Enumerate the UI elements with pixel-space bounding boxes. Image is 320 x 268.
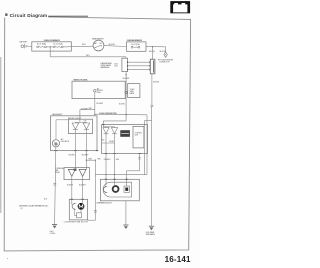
svg-text:YEL/RED: YEL/RED: [68, 155, 75, 157]
svg-text:A/C: A/C: [61, 138, 64, 141]
wire female connector down right column: [151, 74, 160, 226]
svg-text:GRN: GRN: [88, 159, 91, 161]
wire bulb feed inside gauge assembly: [56, 120, 69, 140]
node feed junction 1: [105, 174, 106, 175]
ground G101 right column: [146, 226, 156, 236]
svg-text:COMPRESSOR CLUTCH: COMPRESSOR CLUTCH: [96, 203, 112, 205]
svg-text:Circuit Diagram: Circuit Diagram: [10, 13, 48, 18]
indicator circuit box: [68, 118, 93, 134]
wire control box L-leg to square pin: [127, 154, 141, 187]
svg-text:TO A/C: TO A/C: [130, 88, 136, 91]
scan edge artifact line: [0, 57, 2, 213]
wire labels below gauge assembly: [68, 155, 89, 157]
svg-text:WHT: WHT: [82, 44, 86, 46]
wire fuse No.41 to fuse No.42: [47, 46, 54, 48]
wire diode D2 down: [85, 130, 87, 168]
motor connector pin: [72, 203, 76, 209]
svg-text:CONDENSER FAN MOTOR: CONDENSER FAN MOTOR: [64, 220, 89, 223]
under-hood fuse/relay box: [32, 39, 72, 51]
wire labels below control box: [88, 159, 119, 161]
test tachometer connector: [158, 52, 174, 64]
wire bus right corner down: [146, 115, 148, 175]
svg-text:HARNESS: HARNESS: [101, 66, 110, 69]
wire connector pin 1: [128, 61, 151, 63]
wire heater panel pin down to bus, BLU/WHT: [89, 92, 104, 114]
svg-text:C550: C550: [114, 66, 118, 68]
svg-text:AT ENGINE COOLANT TEMP ABOVE 1: AT ENGINE COOLANT TEMP ABOVE 106 C: [19, 205, 49, 208]
thermostat block: [120, 130, 130, 137]
svg-text:A/C: A/C: [102, 139, 104, 142]
fuse No.42 (40A): [53, 43, 63, 48]
harness label block: [101, 62, 118, 69]
note box pin terminal: [125, 91, 127, 93]
svg-text:TEST TACHOMETER: TEST TACHOMETER: [158, 58, 174, 61]
wire relay to condenser fan motor left: [71, 180, 73, 205]
svg-text:16-141: 16-141: [165, 255, 191, 264]
engine compartment harness bus wire: [80, 108, 147, 122]
wire fuse box to ignition switch, WHT: [63, 44, 93, 47]
svg-text:CONNECTOR: CONNECTOR: [159, 62, 170, 64]
wire inside indicator box: [75, 121, 86, 123]
svg-text:RED: RED: [116, 159, 120, 161]
note annotation: [19, 205, 49, 210]
section title bullet: [5, 13, 7, 16]
svg-text:BLU/WHT: BLU/WHT: [123, 78, 130, 80]
wire motor internal: [75, 209, 82, 216]
A/C indicator bulb: [52, 138, 70, 147]
svg-text:BLK/YEL: BLK/YEL: [109, 44, 116, 46]
wire under-dash box to tachometer stub: [146, 47, 166, 53]
svg-text:CONTROL: CONTROL: [135, 132, 142, 134]
wire connector pin 3: [128, 68, 151, 70]
battery B1: [20, 40, 29, 48]
clutch coil: [113, 186, 119, 192]
diagram border frame: [4, 16, 190, 251]
scan speck: [7, 258, 8, 259]
svg-text:WIRE: WIRE: [130, 91, 134, 93]
svg-text:BLK: BLK: [44, 198, 47, 200]
wire D3 down through control box: [105, 134, 107, 154]
svg-text:No.42 (40A): No.42 (40A): [53, 43, 62, 46]
svg-text:C453: C453: [114, 64, 118, 66]
fuse No.24 (15A): [131, 43, 140, 48]
wire junction down to dash harness connector: [152, 47, 154, 60]
svg-text:FEED: FEED: [97, 92, 102, 94]
diode D1 in indicator box: [72, 122, 79, 129]
svg-text:RED/BLU: RED/BLU: [104, 159, 111, 161]
node junction main feed: [152, 46, 153, 47]
ECM inner box: [133, 126, 144, 147]
fuse No.41 (80A): [37, 43, 47, 48]
gauge assembly box: [51, 113, 99, 150]
heater control panel box: [72, 79, 125, 99]
ground G2 compressor: [123, 225, 128, 229]
wire ignition switch to under-dash fuse box, BLK/YEL: [104, 44, 127, 47]
svg-text:BLU/WHT: BLU/WHT: [96, 103, 103, 105]
wire battery to under-hood fuse box: [26, 45, 32, 48]
dash wire harness connector male half: [122, 58, 128, 71]
ignition switch: [92, 38, 104, 50]
svg-text:BLK/YEL: BLK/YEL: [149, 51, 155, 53]
wire relay to motor labels: [67, 185, 86, 187]
svg-text:No.41 (80A): No.41 (80A): [37, 43, 46, 46]
page header battery chapter icon: [170, 1, 190, 13]
diode D4 in control box: [111, 127, 117, 134]
wire D3 leg down to compressor pin: [105, 154, 107, 186]
svg-text:SWITCH: SWITCH: [97, 90, 103, 92]
section title text: [10, 13, 48, 18]
node bus junction left: [94, 114, 95, 115]
svg-text:UNDER-DASH FUSE/RELAY BOX: UNDER-DASH FUSE/RELAY BOX: [127, 39, 143, 42]
svg-text:BLU/WHT: BLU/WHT: [81, 108, 88, 110]
wire compressor to ground: [125, 201, 127, 225]
diode D3 in control box: [103, 127, 109, 134]
clutch square terminal: [124, 186, 130, 192]
wire into control box split: [103, 126, 114, 128]
wire connector pin 2: [128, 65, 151, 67]
svg-text:DELAY: DELAY: [109, 140, 114, 143]
svg-text:G401: G401: [50, 231, 54, 233]
wire control box internal: [102, 139, 115, 143]
svg-text:BLU/RED: BLU/RED: [82, 155, 89, 157]
node jumper junction: [86, 160, 96, 161]
wire male connector down to heater control panel, BLU/WHT: [119, 72, 130, 115]
condenser fan motor M: [78, 203, 85, 210]
svg-text:BATTERY: BATTERY: [20, 40, 29, 43]
heater panel pin terminal: [94, 87, 103, 94]
motor thermal fuse: [77, 213, 82, 218]
svg-text:WHT: WHT: [86, 55, 90, 57]
svg-text:RED: RED: [98, 159, 102, 161]
wire jumper to right column: [86, 160, 96, 220]
page number: [165, 255, 191, 264]
svg-text:BLU/BLK: BLU/BLK: [67, 185, 73, 187]
svg-text:No.24 (15A): No.24 (15A): [131, 43, 140, 46]
wire D4 down through control box: [114, 134, 116, 154]
svg-text:UNIT: UNIT: [135, 134, 139, 136]
condenser fan motor box: [64, 199, 89, 223]
compressor clutch box: [96, 179, 139, 204]
svg-text:( 1 ): ( 1 ): [20, 208, 23, 210]
svg-text:BLK/YEL: BLK/YEL: [153, 82, 159, 84]
diode D2 in indicator box: [83, 122, 90, 129]
node bus junction right: [125, 114, 127, 116]
wire bulb ground line, BLK: [44, 147, 56, 225]
svg-text:G101 (MAIN: G101 (MAIN: [146, 231, 154, 234]
svg-text:BLK/YEL: BLK/YEL: [119, 103, 125, 105]
wire right column jog: [144, 121, 151, 175]
svg-text:ENGINE COMPARTMENT WIRE: ENGINE COMPARTMENT WIRE: [99, 112, 117, 115]
wire under-hood box down, second feed: [50, 47, 126, 58]
ground G401: [50, 224, 57, 235]
svg-text:A/C: A/C: [97, 87, 100, 90]
main wire harness connector female half: [149, 59, 154, 74]
wire stub down to test tachometer connector: [165, 47, 167, 52]
svg-text:IG1: IG1: [100, 43, 103, 45]
wire bus to control box jog: [103, 115, 126, 127]
svg-text:(COND): (COND): [50, 233, 56, 235]
clutch stadium outline: [103, 182, 132, 197]
A/C control box: [102, 125, 148, 154]
wire diode D1 down to relay: [74, 130, 76, 168]
condenser fan relay: [55, 168, 90, 180]
wire relay to condenser fan motor right: [82, 180, 84, 203]
node junction between fuses: [50, 46, 51, 47]
node feed junction 2: [114, 174, 115, 175]
under-dash fuse/relay box: [127, 39, 147, 51]
compressor feed wire horizontal: [95, 174, 147, 176]
note box: [128, 84, 140, 98]
wire D4 leg down to clutch coil: [114, 154, 116, 186]
clutch connector pin: [103, 186, 107, 192]
